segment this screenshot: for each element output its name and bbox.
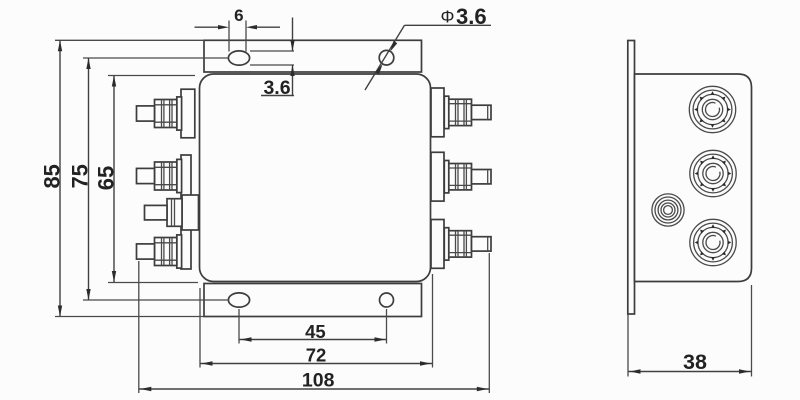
terminal R2 [431, 152, 491, 201]
connector C3 [690, 219, 736, 265]
svg-text:75: 75 [67, 164, 92, 188]
terminal L2 [137, 159, 182, 192]
dimension 72 [200, 274, 433, 368]
terminal R1 [431, 88, 491, 137]
dimension hole diameter 3.6 leader [365, 4, 491, 90]
side view body [635, 74, 752, 282]
bottom right mounting hole [380, 293, 394, 307]
dimension 45 [239, 309, 387, 344]
connector C1 [689, 86, 735, 132]
svg-text:3.6: 3.6 [263, 77, 290, 99]
svg-text:108: 108 [302, 369, 335, 391]
terminal L4 [137, 235, 182, 268]
top mounting flange [204, 40, 422, 72]
filter body front view [200, 74, 431, 282]
svg-text:3.6: 3.6 [456, 4, 487, 29]
dimension 108 [139, 253, 490, 393]
connector C2 [690, 150, 736, 196]
terminal mounting plate L2-L4 [181, 155, 191, 269]
terminal L1 [137, 89, 195, 138]
dimension 65 [93, 76, 198, 283]
bottom mounting flange [204, 284, 422, 317]
svg-text:45: 45 [305, 321, 326, 342]
svg-text:85: 85 [39, 164, 64, 188]
svg-text:Φ: Φ [441, 7, 455, 27]
dimension 6 [195, 6, 281, 52]
ground connector C4 [652, 194, 684, 226]
svg-text:6: 6 [234, 6, 243, 25]
svg-text:72: 72 [306, 345, 327, 366]
bottom mounting slot [228, 293, 249, 307]
top mounting slot [228, 51, 249, 65]
side view mounting bracket [628, 41, 635, 315]
dimension 38 [628, 285, 752, 377]
dimension 75 [67, 58, 228, 300]
svg-text:38: 38 [683, 350, 707, 374]
terminal R3 [431, 220, 491, 269]
ground terminal L3 [145, 195, 199, 230]
dimension 85 [39, 40, 204, 316]
dimension 3.6 slot height [250, 18, 295, 100]
top right mounting hole [379, 50, 394, 65]
svg-text:65: 65 [93, 166, 118, 190]
